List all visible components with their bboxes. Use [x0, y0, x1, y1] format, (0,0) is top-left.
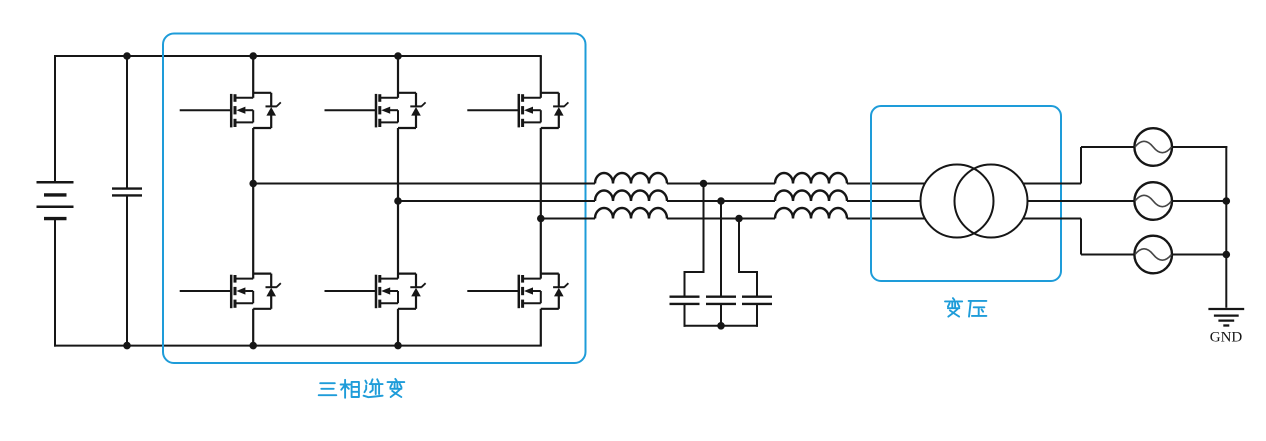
wire source C right stub: [1171, 254, 1227, 256]
ac source GB: [1134, 182, 1172, 220]
transistor Q2: [231, 275, 253, 309]
inductor L6: [775, 208, 847, 219]
node neutral / source C junction: [1223, 251, 1231, 259]
transistor Q5: [519, 94, 541, 128]
wire battery top lead: [54, 55, 56, 182]
wire phase C line segment 2: [667, 218, 775, 220]
battery B1: [37, 182, 74, 218]
inductor L3: [595, 208, 667, 219]
wire gate lead of Q4: [325, 290, 377, 292]
capacitor C3: [706, 297, 736, 304]
wire phase B line segment 2: [667, 200, 775, 202]
wire phase C line segment 3: [847, 218, 950, 220]
wire phase C output: [995, 219, 1135, 255]
transistor Q1: [231, 94, 253, 128]
wire phase C line segment 1: [541, 218, 595, 220]
inductor L1: [595, 173, 667, 184]
wire source Q6 to bottom rail: [540, 309, 542, 346]
node neutral / source B junction: [1223, 197, 1231, 205]
capacitor C1: [112, 189, 142, 196]
wire drain lead Q5: [540, 56, 542, 98]
wire bottom DC rail: [54, 345, 542, 347]
wire phase node B to drain Q4: [397, 201, 399, 279]
wire source Q3 to phase node B: [397, 128, 399, 201]
node top rail leg A: [249, 52, 257, 60]
wire gate lead of Q6: [467, 290, 519, 292]
node top rail / C1 junction: [123, 52, 131, 60]
wire phase A line segment 2: [667, 183, 775, 185]
node bottom rail leg B: [394, 342, 402, 350]
ac source GA: [1134, 128, 1172, 166]
node bottom rail / C1 junction: [123, 342, 131, 350]
wire phase A line segment 1: [253, 183, 595, 185]
wire DC-link cap bottom lead: [126, 197, 128, 346]
transformer block outline: [871, 106, 1061, 281]
node phase A / C2 junction: [700, 180, 708, 188]
wire phase node C to drain Q6: [540, 219, 542, 279]
label GND: [1210, 330, 1243, 346]
body diode of Q4: [398, 274, 426, 309]
body diode of Q6: [541, 274, 569, 309]
wire source B right stub: [1171, 200, 1227, 202]
wire phase A line segment 3: [847, 183, 950, 185]
inverter block outline: [163, 34, 586, 364]
wire phase B line segment 1: [398, 200, 595, 202]
capacitor C4: [742, 297, 772, 304]
body diode of Q1: [253, 93, 281, 128]
capacitor C2: [670, 297, 700, 304]
wire phase B output: [995, 200, 1136, 202]
wire battery bottom lead: [54, 219, 56, 347]
inductor L2: [595, 191, 667, 202]
node phase B / C3 junction: [717, 197, 725, 205]
wire gate lead of Q3: [325, 109, 377, 111]
wire source Q5 to phase node C: [540, 128, 542, 219]
body diode of Q5: [541, 93, 569, 128]
wire drain lead Q1: [252, 56, 254, 98]
transformer T1: [921, 165, 1028, 238]
wire gate lead of Q5: [467, 109, 519, 111]
wire source Q4 to bottom rail: [397, 309, 399, 346]
node phase C / C4 junction: [735, 215, 743, 223]
ac source GC: [1134, 236, 1172, 274]
node phase C junction: [537, 215, 545, 223]
wire drain lead Q3: [397, 56, 399, 98]
wire C4 lower lead: [756, 305, 758, 327]
wire capacitor common bus: [684, 325, 759, 327]
wire C2 lower lead: [684, 305, 686, 327]
wire neutral bus: [1225, 146, 1227, 308]
node phase B junction: [394, 197, 402, 205]
wire source A right stub: [1171, 146, 1227, 148]
label 变压: [945, 298, 986, 317]
inductor L4: [775, 173, 847, 184]
wire top DC rail: [54, 55, 542, 57]
wire C4 branch drop: [738, 219, 758, 296]
transistor Q3: [376, 94, 398, 128]
inductor L5: [775, 191, 847, 202]
wire gate lead of Q1: [180, 109, 232, 111]
node bottom rail leg A: [249, 342, 257, 350]
wire phase B line segment 3: [847, 200, 991, 202]
node top rail leg B: [394, 52, 402, 60]
wire phase A output: [995, 147, 1135, 184]
node capacitor bus junction: [717, 322, 725, 330]
wire C3 branch drop: [720, 201, 722, 296]
transistor Q6: [519, 275, 541, 309]
body diode of Q3: [398, 93, 426, 128]
ground: [1208, 309, 1244, 326]
node phase A junction: [249, 180, 257, 188]
wire C3 lower lead: [720, 305, 722, 326]
svg-text:GND: GND: [1210, 330, 1243, 346]
wire source Q2 to bottom rail: [252, 309, 254, 346]
body diode of Q2: [253, 274, 281, 309]
wire gate lead of Q2: [180, 290, 232, 292]
wire DC-link cap top lead: [126, 56, 128, 188]
wire C2 branch drop: [684, 184, 705, 296]
label 三相逆变: [319, 379, 405, 398]
wire source Q1 to phase node A: [252, 128, 254, 184]
transistor Q4: [376, 275, 398, 309]
wire phase node A to drain Q2: [252, 184, 254, 279]
